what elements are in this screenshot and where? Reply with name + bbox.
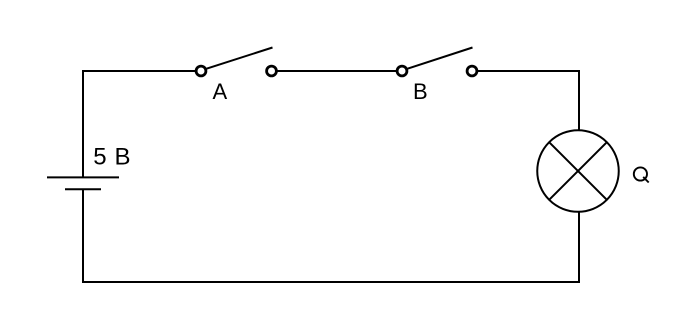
battery: short (negative) plate	[65, 188, 101, 190]
svg-text:B: B	[413, 79, 428, 104]
wire: right vertical upper segment (top-right corner down to lamp)	[578, 70, 580, 131]
wire: bottom horizontal segment	[82, 281, 580, 283]
lamp Q (circle with X)	[537, 130, 619, 212]
wire: top horizontal segment from switch B to top-right corner	[478, 70, 580, 72]
battery: long (positive) plate	[47, 176, 119, 178]
svg-text:5: 5	[93, 144, 106, 171]
label 5 В (battery voltage value)	[93, 144, 130, 171]
wire: top horizontal segment between switch A and switch B	[278, 70, 397, 72]
svg-text:В: В	[115, 144, 131, 171]
wire: right vertical lower segment (lamp down to bottom-right corner)	[578, 212, 580, 284]
switch B	[397, 48, 477, 76]
wire: left vertical lower segment (battery bottom plate down to bottom-left corner)	[82, 189, 84, 283]
switch A	[196, 48, 276, 76]
svg-text:A: A	[213, 79, 228, 104]
label Q (lamp)	[634, 167, 649, 182]
wire: top horizontal segment from top-left corner to switch A left terminal	[82, 70, 196, 72]
wire: left vertical upper segment (top-left corner down to battery top plate)	[82, 70, 84, 177]
